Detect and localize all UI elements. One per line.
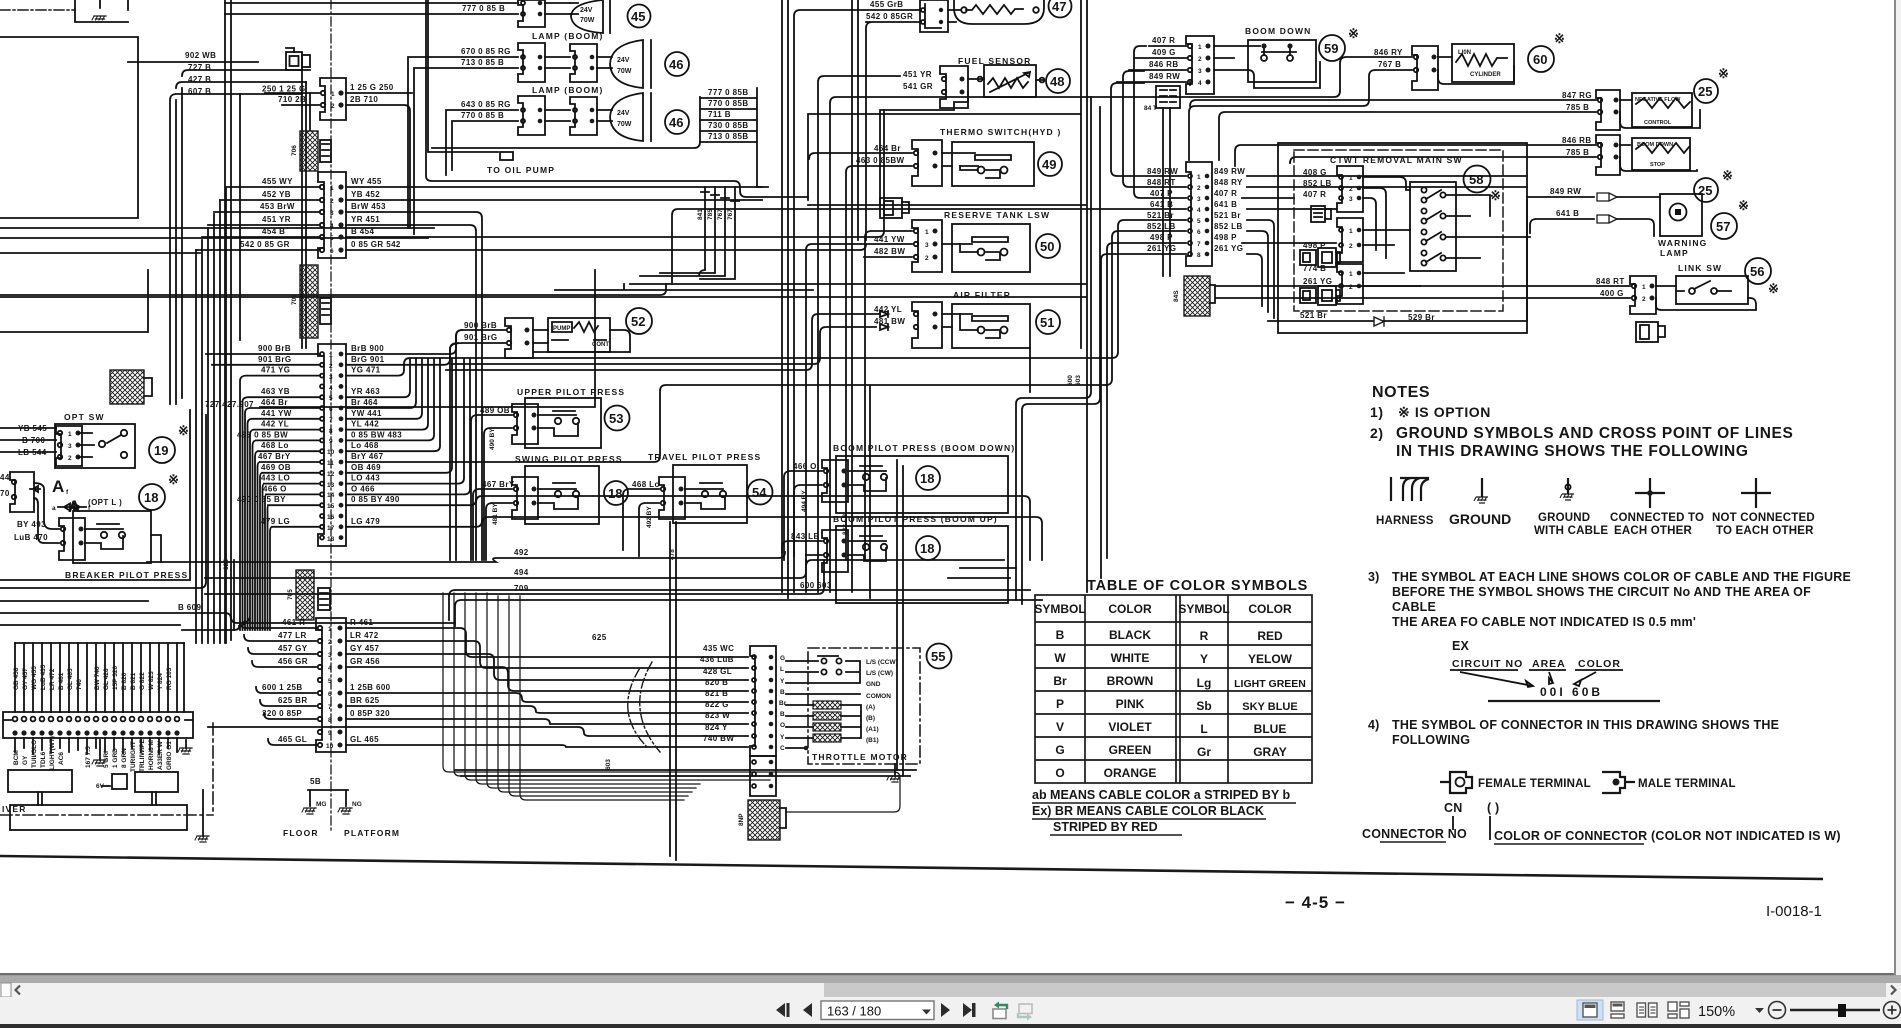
svg-text:CYLINDER: CYLINDER [1470,72,1501,78]
lamp L45 bulb [570,0,610,33]
wire lamp46b [446,110,518,175]
svg-text:LINK SW: LINK SW [1678,263,1722,273]
wire 25b left [1235,145,1697,171]
plug connector pair [286,48,310,70]
svg-text:1: 1 [330,185,334,192]
negative flow control 25 [1596,90,1620,130]
svg-text:53: 53 [609,411,623,426]
svg-text:443 LO: 443 LO [261,474,290,483]
node circle 25b [1694,178,1718,202]
connector hatched 705 lower [296,570,314,620]
svg-text:490 BY: 490 BY [489,428,496,450]
svg-text:777 0 85B: 777 0 85B [708,88,749,97]
svg-text:2: 2 [329,363,333,370]
svg-text:FLOOR: FLOOR [283,828,319,838]
svg-text:BOOM DOWN: BOOM DOWN [1637,142,1673,148]
connector link [1630,276,1656,314]
svg-text:457 GY: 457 GY [278,644,308,653]
svg-text:477 LR: 477 LR [278,631,307,640]
plug link below [1636,322,1665,342]
svg-text:150%: 150% [1698,1004,1735,1020]
svg-text:THE AREA FO CABLE NOT INDICATE: THE AREA FO CABLE NOT INDICATED IS 0.5 m… [1392,615,1696,629]
svg-text:LI0N: LI0N [1458,50,1471,56]
coil A [813,701,841,709]
svg-text:13: 13 [327,482,335,489]
svg-text:Y 824: Y 824 [157,673,164,690]
svg-text:2: 2 [328,639,332,646]
svg-text:TDL6: TDL6 [40,751,47,768]
wire 51 left [446,314,880,370]
svg-text:3: 3 [330,210,334,217]
svg-text:467 BrY: 467 BrY [482,480,515,489]
svg-text:AC6: AC6 [58,752,65,765]
svg-text:SKY BLUE: SKY BLUE [1242,701,1297,713]
boom down stop 25 [1596,135,1620,175]
svg-text:18: 18 [327,536,335,543]
svg-text:643 0 85 RG: 643 0 85 RG [461,100,511,109]
svg-text:8: 8 [329,428,333,435]
wire to oil pump [428,0,498,152]
connector CN 10-pin floor [316,618,346,752]
svg-text:O 466: O 466 [351,484,375,493]
svg-text:18: 18 [920,471,934,486]
svg-text:407 R: 407 R [1152,36,1175,45]
node circle 57 [1711,213,1737,239]
wire left horizontals to 0 [0,228,666,295]
svg-text:PLATFORM: PLATFORM [344,828,400,838]
svg-text:※: ※ [1348,26,1359,41]
node circle 54 [748,480,773,505]
svg-text:9: 9 [329,438,333,445]
wire cn8 right to ctwt [1242,176,1527,318]
svg-text:1: 1 [1642,284,1646,291]
svg-text:8: 8 [1197,252,1201,259]
node circle 51 [1036,310,1060,334]
connector C1 ctwt [1337,166,1363,212]
svg-text:THE SYMBOL AT EACH LINE S: THE SYMBOL AT EACH LINE SHOWS COLOR OF C… [1392,570,1851,584]
svg-text:453 BrW: 453 BrW [260,202,295,211]
node circle 18a [604,481,628,505]
svg-text:RG 103: RG 103 [166,667,173,690]
svg-text:600: 600 [1067,375,1074,386]
svg-text:466 O: 466 O [263,484,287,493]
svg-text:625: 625 [592,633,607,642]
svg-text:492 BY: 492 BY [646,506,653,528]
wire 49 left [809,153,912,560]
svg-text:56: 56 [1750,264,1764,279]
svg-text:V: V [1056,720,1064,734]
svg-text:YG 471: YG 471 [351,366,381,375]
plug P3 relay [1300,286,1340,305]
svg-text:1: 1 [1349,228,1353,235]
svg-text:455 WY: 455 WY [262,177,293,186]
svg-text:2: 2 [330,198,334,205]
connector strip driver [3,712,193,738]
CTWT enclosure solid [1278,143,1527,333]
coil B [813,712,841,720]
node circle 60 [1528,46,1554,72]
svg-text:− 4-5 −: − 4-5 − [1285,893,1346,912]
svg-text:AIR FILTER: AIR FILTER [953,290,1011,300]
svg-text:900 BrB: 900 BrB [258,344,291,353]
svg-text:YELOW: YELOW [1248,652,1293,666]
cylinder 60 [1412,46,1438,90]
svg-text:847 RG: 847 RG [1562,91,1592,100]
svg-text:CN: CN [1444,801,1462,815]
svg-text:466 O: 466 O [793,462,817,471]
svg-text:CIRCUIT NO: CIRCUIT NO [1452,658,1523,670]
svg-text:TO EACH OTHER: TO EACH OTHER [1716,525,1814,537]
svg-text:SYMBOL: SYMBOL [1034,602,1085,616]
svg-text:19: 19 [154,443,168,458]
svg-text:※: ※ [1768,281,1779,296]
svg-text:HORN8 M: HORN8 M [148,740,155,770]
svg-text:603: 603 [605,759,612,770]
rotary switch ctwt [1410,182,1456,271]
svg-text:SWING PILOT PRESS: SWING PILOT PRESS [515,454,623,464]
wire rows left cn6 [196,187,320,250]
node circle 19 [149,437,175,463]
svg-text:60: 60 [1533,52,1547,67]
connector tab [320,140,331,162]
wire rows left cn10 [240,622,316,745]
svg-text:320 0 85P: 320 0 85P [262,709,302,718]
connector CN 6-pin 455-542 [318,172,346,258]
svg-text:481 BY: 481 BY [492,503,499,525]
svg-text:GRAY: GRAY [1253,745,1287,759]
connector plug 84T [1156,86,1180,108]
svg-text:0 85P 320: 0 85P 320 [350,709,390,718]
svg-text:GR8O G1: GR8O G1 [166,741,173,770]
svg-text:465 GL: 465 GL [278,735,307,744]
svg-text:705: 705 [291,294,298,305]
harness wrap arc [628,662,660,752]
svg-text:3: 3 [1198,68,1202,75]
diode D57a [1597,193,1617,201]
svg-text:Lo 468: Lo 468 [351,441,379,450]
svg-text:468 Lo: 468 Lo [261,441,289,450]
svg-text:1: 1 [1198,44,1202,51]
svg-text:1 GRD: 1 GRD [112,748,119,768]
connector lamp46b L [518,96,545,135]
svg-text:0 85 BW 483: 0 85 BW 483 [351,430,402,439]
svg-text:G: G [1055,743,1064,757]
connector A opt [10,472,34,512]
svg-text:785 B: 785 B [1566,103,1589,112]
svg-text:GL 428: GL 428 [103,668,110,690]
symbol connected [1635,478,1665,508]
svg-text:785: 785 [707,209,714,220]
svg-text:51: 51 [1040,315,1054,330]
svg-text:820 B: 820 B [705,678,728,687]
svg-text:478: 478 [669,549,676,560]
svg-text:400 G: 400 G [1600,289,1624,298]
wire lamp45 top [225,3,518,14]
svg-text:RESERVE TANK LSW: RESERVE TANK LSW [944,210,1050,220]
svg-text:Lg: Lg [1197,676,1212,690]
svg-text:441 YW: 441 YW [261,409,292,418]
svg-text:MALE TERMINAL: MALE TERMINAL [1638,778,1736,790]
svg-text:BREAKER PILOT PRESS: BREAKER PILOT PRESS [65,570,188,580]
svg-text:THE SYMBOL OF CONNECTOR: THE SYMBOL OF CONNECTOR IN THIS DRAWING … [1392,718,1779,732]
node circle 59 [1319,35,1345,61]
svg-text:O: O [1055,766,1064,780]
svg-text:LO 443: LO 443 [351,474,380,483]
svg-text:740 BW: 740 BW [703,734,734,743]
svg-text:L: L [1200,722,1207,736]
wire 727 B [170,94,302,404]
resistor R47 [954,0,1044,24]
svg-text:BrY 467: BrY 467 [351,452,384,461]
svg-text:※: ※ [1554,31,1565,46]
svg-text:740: 740 [76,679,83,690]
connector top-left box [75,0,128,22]
svg-text:261 YG: 261 YG [1303,277,1332,286]
svg-text:0 85 GR 542: 0 85 GR 542 [351,240,401,249]
svg-text:435 WC: 435 WC [703,644,734,653]
svg-text:492: 492 [514,548,529,557]
svg-text:L/S (CW): L/S (CW) [866,670,893,677]
svg-text:852 LB: 852 LB [1303,179,1332,188]
svg-text:BOOM PILOT PRESS (BOOM DOWN): BOOM PILOT PRESS (BOOM DOWN) [833,443,1015,453]
wire 25a left [1190,100,1700,160]
svg-text:※ IS OPTION: ※ IS OPTION [1398,404,1491,420]
svg-text:LAMP: LAMP [1660,248,1689,258]
svg-text:00I 60B: 00I 60B [1540,685,1603,699]
svg-text:49: 49 [1042,157,1056,172]
svg-text:46: 46 [669,57,683,72]
svg-text:841: 841 [697,209,704,220]
wire lamp drops [640,187,762,279]
symbol harness [1391,477,1429,501]
svg-text:B 454: B 454 [351,227,374,236]
svg-text:BROWN: BROWN [1107,674,1154,688]
connector hatched left [110,370,144,404]
svg-text:25: 25 [1698,84,1712,99]
svg-text:455 GrB: 455 GrB [870,0,903,9]
connector CN 2-pin 250/710 [320,78,346,120]
svg-text:852 LB: 852 LB [1147,222,1176,231]
svg-text:LIGHT(WT): LIGHT(WT) [49,736,56,770]
svg-text:6: 6 [1197,229,1201,236]
svg-text:498 P: 498 P [1214,233,1237,242]
svg-text:5: 5 [1197,218,1201,225]
coil A1 [813,723,841,731]
ground [92,16,106,22]
svg-text:48: 48 [1050,74,1064,89]
svg-text:LIGHT GREEN: LIGHT GREEN [1234,678,1306,690]
connector C3 ctwt [1337,264,1363,304]
node circle 53 [605,406,630,431]
svg-text:5: 5 [328,678,332,685]
svg-text:18: 18 [144,490,158,505]
svg-text:Br: Br [779,700,787,707]
svg-text:57: 57 [1716,219,1730,234]
svg-text:901 BrG: 901 BrG [464,333,497,342]
svg-text:6: 6 [328,691,332,698]
svg-text:0 85 BY 490: 0 85 BY 490 [351,495,400,504]
symbol not connected [1741,478,1771,508]
svg-text:2: 2 [925,255,929,262]
svg-text:521 Br: 521 Br [1214,211,1241,220]
svg-text:167 7.5: 167 7.5 [85,746,92,768]
svg-text:TABLE OF COLOR SYMBOLS: TABLE OF COLOR SYMBOLS [1087,578,1308,594]
svg-text:2: 2 [1349,284,1353,291]
svg-text:1: 1 [1349,271,1353,278]
connector CN throttle [750,646,776,756]
node circle 25a [1694,79,1718,103]
svg-text:G 822: G 822 [139,672,146,690]
svg-text:541 GR: 541 GR [903,82,933,91]
svg-text:521 Br: 521 Br [1300,311,1327,320]
connector lamp46b R [570,97,597,135]
svg-text:(B1): (B1) [866,737,879,744]
svg-text:Y: Y [780,678,785,685]
svg-text:(A1): (A1) [866,726,879,733]
svg-text:BW 740: BW 740 [94,666,101,690]
wire 47 left [794,10,920,592]
plug P2 relay [1300,248,1340,267]
node center chain line [330,0,332,830]
svg-text:5: 5 [329,395,333,402]
svg-text:B 461: B 461 [58,672,65,690]
svg-text:YW 441: YW 441 [351,409,382,418]
svg-text:THERMO SWITCH(HYD ): THERMO SWITCH(HYD ) [940,127,1061,137]
svg-text:WG 455: WG 455 [31,666,38,690]
svg-text:2: 2 [331,103,335,110]
wire rows right cn10 to fan [208,628,748,747]
svg-text:641 B: 641 B [1214,200,1237,209]
svg-text:494: 494 [514,568,529,577]
svg-text:767: 767 [717,209,724,220]
wire lamp46a [408,57,518,234]
coil B1 [813,734,841,742]
svg-text:BCM: BCM [13,750,20,765]
svg-text:407 R: 407 R [1303,190,1326,199]
symbol male terminal [1602,772,1635,793]
svg-text:R: R [1200,629,1209,643]
svg-text:436 LuB: 436 LuB [700,655,734,664]
svg-text:451 YR: 451 YR [903,70,932,79]
switch SW51 [942,304,1030,348]
svg-text:B: B [780,689,785,696]
svg-text:261 YG: 261 YG [1214,244,1243,253]
svg-text:1 25B 600: 1 25B 600 [350,683,391,692]
PUMP 52 [505,318,533,358]
svg-text:W 823: W 823 [148,671,155,690]
svg-text:4): 4) [1368,718,1380,732]
svg-text:10: 10 [326,743,334,750]
svg-text:W: W [1054,651,1066,665]
svg-text:84 T: 84 T [1144,105,1157,112]
svg-text:Br: Br [1053,674,1067,688]
svg-text:FOLLOWING: FOLLOWING [1392,733,1470,747]
svg-text:I-0018-1: I-0018-1 [1766,903,1822,920]
svg-text:1: 1 [68,431,72,438]
svg-text:VIOLET: VIOLET [1108,720,1152,734]
diode D51 [880,311,888,330]
lamp L46a bulb [610,40,651,88]
svg-text:11: 11 [327,460,334,467]
wire 607 B [182,70,310,76]
svg-text:B 821: B 821 [130,672,137,690]
node circle 46b [665,110,689,134]
svg-text:BOOM DOWN: BOOM DOWN [1245,26,1312,36]
svg-text:52: 52 [631,314,645,329]
svg-text:16: 16 [327,514,335,521]
svg-text:852 LB: 852 LB [1214,222,1243,231]
svg-text:A33ER W: A33ER W [157,740,164,770]
svg-text:58: 58 [1469,172,1483,187]
svg-text:Br 464: Br 464 [351,398,378,407]
svg-text:2: 2 [1197,185,1201,192]
svg-text:54: 54 [752,485,767,500]
wire top-left dash-dot [0,9,75,11]
connector lamp46a L [518,43,545,82]
svg-text:BrB 900: BrB 900 [351,344,384,353]
svg-text:P: P [1056,697,1064,711]
svg-text:84S: 84S [1173,290,1180,302]
svg-text:625 BR: 625 BR [278,696,308,705]
svg-text:※: ※ [168,472,179,487]
svg-text:15P 320: 15P 320 [112,666,119,690]
svg-text:Sb: Sb [1196,699,1211,713]
BREAKER PILOT PRESS [73,511,151,563]
svg-text:2: 2 [68,455,72,462]
symbol ground with cable [1567,478,1569,494]
node circle 46 [665,52,689,76]
svg-text:CABLE: CABLE [1392,600,1436,614]
svg-text:3: 3 [328,652,332,659]
svg-text:1 25 G 250: 1 25 G 250 [350,83,394,92]
svg-text:B: B [780,711,785,718]
svg-text:5B: 5B [310,777,321,786]
svg-text:G: G [780,655,785,662]
svg-text:848 RY: 848 RY [1214,178,1243,187]
svg-text:PINK: PINK [1116,697,1145,711]
svg-text:1): 1) [1370,404,1384,420]
svg-text:(OPT L ): (OPT L ) [88,498,122,507]
svg-text:EACH OTHER: EACH OTHER [1614,525,1693,537]
node circle 58 [1464,166,1491,193]
svg-text:GL 465: GL 465 [67,668,74,690]
svg-text:46: 46 [669,115,683,130]
svg-text:709: 709 [514,584,529,593]
svg-text:670 0 85 RG: 670 0 85 RG [461,47,511,56]
svg-text:COLOR OF CONNECTOR (COLOR NOT: COLOR OF CONNECTOR (COLOR NOT INDICATED … [1494,829,1841,843]
svg-text:CONNECTOR NO: CONNECTOR NO [1362,827,1467,841]
svg-text:COLOR: COLOR [1108,602,1152,616]
svg-text:GR 456: GR 456 [350,657,380,666]
wires ctwt internal [1363,177,1530,286]
fuel sender 47 group [920,0,948,32]
svg-text:STRIPED BY RED: STRIPED BY RED [1053,820,1158,834]
driver lower blocks [8,770,187,830]
svg-text:467 BrY: 467 BrY [258,452,291,461]
svg-text:767 B: 767 B [1378,60,1401,69]
svg-text:711 B: 711 B [708,110,731,119]
svg-text:4: 4 [329,385,333,392]
ground driver1 [99,740,101,760]
svg-text:NOT CONNECTED: NOT CONNECTED [1712,512,1815,524]
svg-text:2B 710: 2B 710 [350,95,378,104]
svg-text:727.427.907: 727.427.907 [205,400,254,409]
ground driver3 [202,790,204,836]
connector hatched 705 [300,265,318,338]
node circle 50 [1036,234,1060,258]
driver block comb [15,642,184,644]
node circle 47 [1049,0,1072,18]
